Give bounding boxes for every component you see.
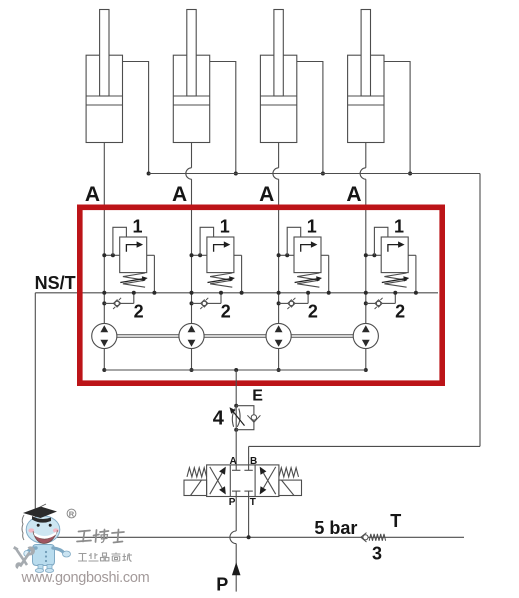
svg-text:R: R bbox=[69, 510, 75, 519]
node A (valve port) bbox=[230, 456, 237, 467]
flow divider motor M4 bbox=[353, 323, 378, 348]
node: label 1 (relief valve section 3) bbox=[307, 216, 317, 236]
relief valve 1 (section 1) bbox=[102, 227, 156, 294]
svg-text:2: 2 bbox=[395, 301, 405, 321]
wire: cylinder C1 rod-side port to A-bus bbox=[123, 62, 151, 176]
wire: cylinder C2 piston-side line to valve section 2 bbox=[186, 143, 192, 256]
node A (cylinder C3 port label) bbox=[259, 183, 274, 206]
svg-text:2: 2 bbox=[134, 301, 144, 321]
svg-text:1: 1 bbox=[220, 216, 230, 236]
check valve 2 (section 3) bbox=[277, 291, 311, 309]
cylinder C4 bbox=[348, 10, 384, 143]
wire: NS/T pilot line and left tank drop bbox=[35, 293, 438, 538]
wire: tank line T bbox=[35, 536, 464, 538]
wire: pressure supply P line (with crossover hop) bbox=[230, 497, 236, 592]
node T (valve port) bbox=[250, 497, 256, 508]
node: label 2 (check valve section 1) bbox=[134, 301, 144, 321]
wire: motor M2 outlet to bottom bus bbox=[190, 349, 194, 372]
node: label 2 (check valve section 4) bbox=[395, 301, 405, 321]
svg-text:E: E bbox=[252, 388, 263, 405]
svg-text:1: 1 bbox=[133, 216, 143, 236]
wire: bottom bus line bbox=[104, 368, 366, 372]
svg-text:B: B bbox=[250, 456, 257, 467]
svg-text:T: T bbox=[390, 511, 401, 531]
relief valve 1 (section 2) bbox=[190, 227, 244, 294]
wire: cylinder C3 piston-side line to valve section 3 bbox=[273, 143, 279, 256]
watermark text: www.gongboshi.com bbox=[21, 570, 150, 586]
node: label 2 (check valve section 2) bbox=[221, 301, 231, 321]
node: label 1 (relief valve section 2) bbox=[220, 216, 230, 236]
node P label bbox=[216, 575, 228, 595]
svg-text:2: 2 bbox=[221, 301, 231, 321]
check valve 2 (section 2) bbox=[190, 291, 224, 309]
cylinder C1 bbox=[86, 10, 122, 143]
solenoid + spring (left actuator) bbox=[184, 468, 207, 496]
wire: section 1 main line bbox=[103, 255, 105, 323]
flow divider motor M2 bbox=[179, 323, 204, 348]
wire: motor M1 outlet to bottom bus bbox=[102, 349, 106, 372]
node: label 3 (check valve) bbox=[372, 544, 382, 564]
svg-text:NS/T: NS/T bbox=[35, 273, 76, 293]
node: label 1 (relief valve section 4) bbox=[394, 216, 404, 236]
node: label 1 (relief valve section 1) bbox=[133, 216, 143, 236]
cylinder C2 bbox=[173, 10, 209, 143]
node A (cylinder C2 port label) bbox=[172, 183, 187, 206]
check valve 3 (5 bar back-pressure) bbox=[361, 533, 386, 542]
watermark text: gong bo shi (calligraphy) bbox=[77, 530, 124, 543]
wire: cylinder C1 piston-side line to valve section 1 bbox=[103, 143, 105, 256]
node NS/T label bbox=[35, 273, 76, 293]
svg-text:A: A bbox=[172, 183, 187, 206]
node P (valve port) bbox=[229, 497, 236, 508]
wire: motor M4 outlet to bottom bus bbox=[364, 349, 368, 372]
watermark logo: gongboshi mascot + text bbox=[13, 504, 76, 573]
flow divider motor M3 bbox=[266, 323, 291, 348]
directional valve right position (crossed arrows) bbox=[260, 467, 276, 495]
svg-text:4: 4 bbox=[213, 408, 225, 430]
wire: A-bus (rod-side manifold) to node B of directional valve bbox=[149, 174, 480, 465]
node T label (tank) bbox=[390, 511, 401, 531]
flow control valve 4 (throttle with bypass check) bbox=[230, 404, 261, 432]
node E label bbox=[252, 388, 263, 405]
node B (valve port) bbox=[250, 456, 257, 467]
watermark text: gong ye pin shang cheng bbox=[78, 553, 132, 562]
svg-text:5 bar: 5 bar bbox=[314, 518, 357, 538]
wire: cylinder C3 rod-side port to A-bus bbox=[297, 62, 325, 176]
node: section 3 line x NS/T junction bbox=[277, 291, 281, 295]
wire: cylinder C4 rod-side port to A-bus bbox=[384, 62, 412, 176]
node: label 5 bar bbox=[314, 518, 357, 538]
wire: section 3 main line bbox=[278, 255, 280, 323]
check valve 2 (section 1) bbox=[102, 291, 136, 309]
highlight box (red) bbox=[80, 207, 442, 383]
svg-text:P: P bbox=[229, 497, 236, 508]
mechanical shaft coupling M3-M4 (double line) bbox=[291, 335, 353, 338]
node: section 2 line x NS/T junction bbox=[190, 291, 194, 295]
svg-text:T: T bbox=[250, 497, 256, 508]
node: label 2 (check valve section 3) bbox=[308, 301, 318, 321]
svg-text:A: A bbox=[85, 183, 100, 206]
svg-text:1: 1 bbox=[307, 216, 317, 236]
node A (cylinder C1 port label) bbox=[85, 183, 100, 206]
wire: motor M3 outlet to bottom bus bbox=[277, 349, 281, 372]
check valve 2 (section 4) bbox=[364, 291, 398, 309]
directional valve 4/3 solenoid (body) bbox=[207, 465, 279, 497]
mechanical shaft coupling M1-M2 (double line) bbox=[117, 335, 179, 338]
svg-text:A: A bbox=[230, 456, 237, 467]
svg-text:2: 2 bbox=[308, 301, 318, 321]
svg-text:3: 3 bbox=[372, 544, 382, 564]
wire: throttle valve to directional valve port A bbox=[235, 430, 237, 465]
wire: cylinder C2 rod-side port to A-bus bbox=[210, 62, 238, 176]
svg-text:A: A bbox=[346, 183, 361, 206]
wire: valve port T drop to tank line bbox=[247, 497, 251, 540]
node: label 4 (throttle valve) bbox=[213, 408, 225, 430]
directional valve left position (crossed arrows) bbox=[210, 467, 226, 495]
relief valve 1 (section 4) bbox=[364, 227, 418, 294]
node P supply arrow bbox=[232, 562, 241, 575]
wire: cylinder C4 piston-side line to valve section 4 bbox=[360, 143, 366, 256]
node: section 4 line x NS/T junction bbox=[364, 291, 368, 295]
flow divider motor M1 bbox=[92, 323, 117, 348]
node: section 1 line x NS/T junction bbox=[102, 291, 106, 295]
svg-text:A: A bbox=[259, 183, 274, 206]
wire: section 2 main line bbox=[191, 255, 193, 323]
node A (cylinder C4 port label) bbox=[346, 183, 361, 206]
svg-text:www.gongboshi.com: www.gongboshi.com bbox=[21, 570, 150, 586]
solenoid + spring (right actuator) bbox=[279, 468, 302, 496]
mechanical shaft coupling M2-M3 (double line) bbox=[204, 335, 266, 338]
svg-text:1: 1 bbox=[394, 216, 404, 236]
wire: bottom bus to node E / throttle valve bbox=[235, 370, 237, 406]
wire: section 4 main line bbox=[365, 255, 367, 323]
cylinder C3 bbox=[260, 10, 296, 143]
relief valve 1 (section 3) bbox=[277, 227, 331, 294]
svg-text:P: P bbox=[216, 575, 228, 595]
